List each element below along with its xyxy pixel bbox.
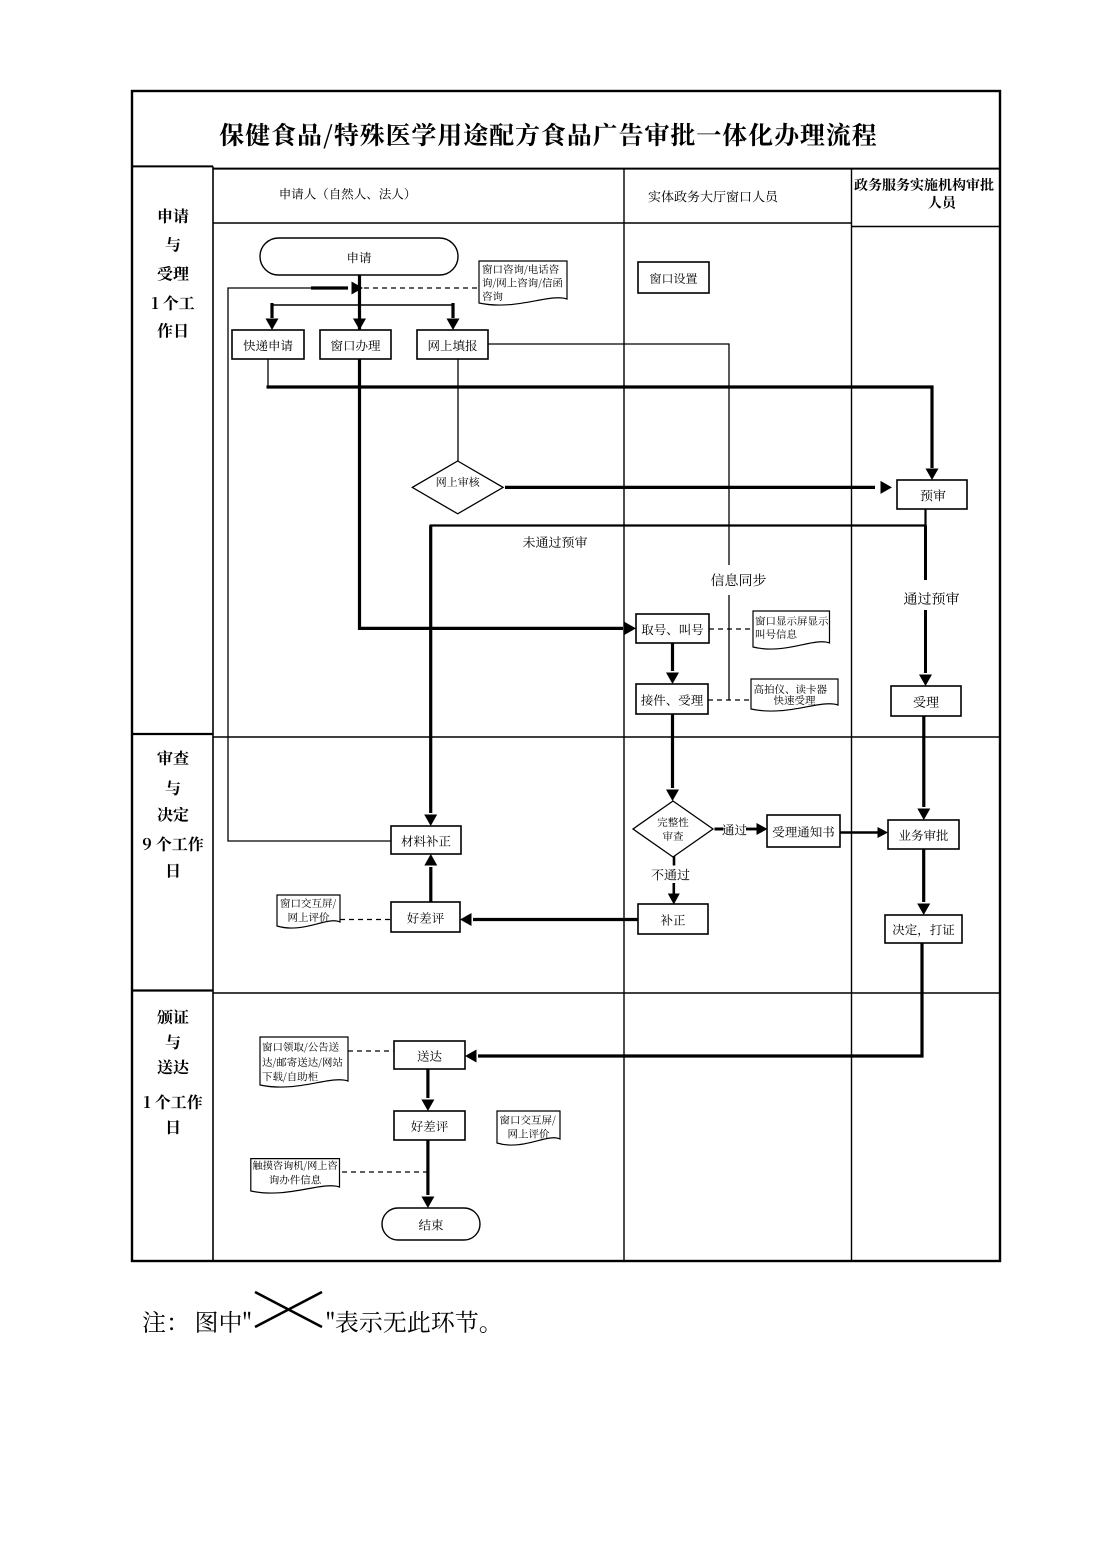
dashed link: delivery annotation to 送达	[348, 1050, 394, 1052]
arrow: 网上审核 to 预审	[505, 481, 892, 494]
process box 窗口办理	[320, 330, 391, 359]
process box 接件、受理	[636, 684, 708, 714]
arrow: 好差评 to 结束	[421, 1140, 434, 1208]
process box 预审	[897, 480, 967, 509]
arrow: down into 快递申请	[266, 303, 279, 330]
phase label: apply & accept, 1 working day	[152, 208, 194, 338]
wire: 预审 down to 受理 (通过预审)	[924, 526, 927, 674]
wire: 网上填报 right to info-sync line	[488, 344, 729, 565]
wire: branch line above three apply channels	[272, 304, 453, 306]
process box 好差评 (review phase)	[391, 902, 460, 932]
arrow: resubmit joins main flow	[311, 282, 363, 295]
row divider: accept/review	[132, 734, 1000, 737]
flow label 信息同步	[711, 573, 766, 586]
table outer frame	[132, 91, 1000, 1261]
arrow: 完整性审查 不通过 down to 补正	[668, 856, 680, 905]
arrow: into 受理 top	[919, 675, 932, 687]
arrow: 取号叫号 to 接件受理	[666, 643, 679, 684]
dashed link: 接件受理 to scanner annotation	[708, 699, 751, 701]
wire: info-sync line lower part	[728, 595, 730, 700]
phase label: review & decide, 9 working days	[143, 750, 204, 878]
decision diamond 网上审核	[412, 461, 503, 514]
end terminator 结束	[382, 1208, 480, 1240]
arrow: 补正 to 好差评	[460, 913, 638, 926]
title row bottom line	[132, 166, 1000, 168]
annotation doc: touch query machine	[251, 1159, 340, 1193]
process box 业务审批	[888, 820, 959, 849]
process box 窗口设置	[638, 262, 709, 293]
process box 网上填报	[417, 330, 488, 359]
flow label 通过预审	[904, 592, 959, 605]
wire+arrow: 决定打证 down-left to 送达	[465, 943, 922, 1063]
dashed link: 申请 to consult annotation	[364, 287, 479, 289]
process box 送达	[394, 1041, 465, 1069]
wire: 未通过预审 branch from 预审	[430, 509, 927, 526]
column header bottom line	[213, 223, 1000, 227]
arrow: 未通过预审 down into 材料补正	[424, 526, 437, 827]
annotation doc: window display info	[753, 611, 830, 649]
process box 受理	[891, 686, 961, 716]
decision diamond 完整性审查	[633, 801, 713, 857]
phase label: issue & deliver, 1 working day	[144, 1009, 202, 1134]
annotation doc: interactive screen evaluation (delivery)	[497, 1111, 560, 1145]
wire: 网上填报 down to 网上审核 diamond	[457, 359, 459, 461]
title	[220, 123, 877, 149]
dashed link: 取号叫号 to display annotation	[709, 628, 753, 630]
arrow: into 窗口办理 top	[353, 319, 366, 331]
phase label column divider	[212, 166, 214, 1261]
column header: hall staff	[649, 190, 778, 202]
start terminator 申请	[260, 238, 458, 275]
process box 材料补正	[391, 826, 461, 854]
arrow: 受理 to 业务审批	[917, 716, 930, 820]
dashed link: query annotation to end flow	[342, 1171, 428, 1173]
arrow: 好差评 up to 材料补正	[424, 854, 437, 902]
footnote text 表示无此环节	[327, 1311, 487, 1333]
arrow: into 预审 top	[926, 469, 939, 481]
row divider: review/deliver	[132, 991, 1000, 994]
arrow: 完整性审查 通过 to 受理通知书	[715, 823, 768, 835]
arrow: 受理通知书 to 业务审批	[840, 827, 888, 838]
process box 好差评 (delivery phase)	[394, 1111, 465, 1140]
annotation doc: consult channels	[479, 261, 567, 305]
wire: resubmit feedback from 材料补正 up-left	[228, 288, 391, 841]
column divider: applicant/hall	[623, 169, 625, 1261]
wire: 快递申请 to collector	[267, 359, 269, 387]
footnote text 注：图中	[143, 1311, 250, 1333]
column header: applicant	[281, 188, 409, 200]
process box 决定，打证	[885, 915, 962, 943]
flow label 未通过预审	[523, 536, 587, 548]
column divider: hall/agency	[851, 169, 853, 1261]
annotation doc: interactive screen evaluation (review)	[277, 895, 340, 928]
arrow: into 取号、叫号	[625, 622, 637, 635]
column header: agency staff	[854, 178, 993, 209]
arrow: 接件受理 to 完整性审查	[666, 714, 679, 801]
flow label 不通过	[651, 869, 689, 881]
annotation doc: scanner quick accept	[751, 679, 838, 711]
wire: main flow 申请 down to 窗口办理 then to 取号叫号	[360, 275, 624, 628]
process box 取号、叫号	[636, 614, 709, 643]
footnote X symbol	[255, 1292, 322, 1327]
dashed link: evaluation annotation to 好差评	[340, 919, 391, 921]
flow label 通过	[722, 824, 746, 835]
process box 快递申请	[232, 330, 304, 359]
annotation doc: delivery channels	[260, 1037, 348, 1087]
arrow: 送达 to 好差评	[421, 1069, 434, 1111]
process box 受理通知书	[767, 815, 840, 847]
arrow: 业务审批 to 决定打证	[917, 849, 930, 915]
process box 补正	[638, 904, 708, 934]
arrow: down into 网上填报	[447, 303, 460, 330]
wire: collector line to 预审	[267, 387, 933, 468]
